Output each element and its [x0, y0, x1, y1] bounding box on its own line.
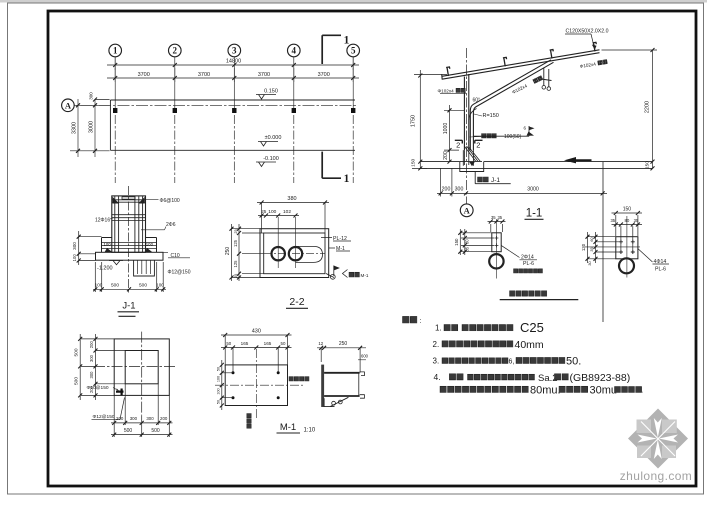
svg-text:50: 50	[226, 341, 231, 346]
logo white pinwheel petals	[654, 418, 662, 438]
svg-text:100: 100	[72, 254, 77, 262]
fplan left dims	[80, 334, 125, 400]
channel top flange	[324, 372, 360, 374]
grid circle A	[62, 99, 75, 112]
svg-text:35: 35	[610, 218, 615, 223]
svg-text:12Φ16: 12Φ16	[95, 218, 110, 224]
section: purlin C-marks on beam	[446, 67, 451, 76]
svg-text:200: 200	[442, 187, 451, 193]
svg-text:PL-6: PL-6	[655, 267, 666, 273]
J-1 pit below slab	[134, 260, 155, 276]
svg-text:A: A	[65, 101, 72, 111]
svg-text:C25: C25	[520, 320, 544, 335]
right purlin leader + labels	[638, 249, 669, 264]
section cut marks 2-2 on column	[455, 140, 483, 143]
left arrow on ground	[564, 157, 592, 163]
svg-text:35: 35	[634, 218, 639, 223]
svg-text:60°: 60°	[473, 98, 481, 104]
bay dim line 3700s	[107, 77, 359, 79]
svg-text:(GB8923-88): (GB8923-88)	[570, 372, 631, 384]
svg-text:500: 500	[124, 428, 133, 434]
channel top-right lip hook	[360, 372, 365, 376]
svg-text:200: 200	[443, 151, 449, 160]
svg-text:3.: 3.	[433, 357, 440, 366]
label pad plate (CJK)	[482, 134, 486, 138]
logo squares	[637, 420, 652, 434]
section: column pipe	[464, 74, 468, 150]
svg-text:0.150: 0.150	[264, 89, 278, 95]
J-1 top plate lines	[112, 200, 146, 202]
svg-text:1750: 1750	[411, 115, 417, 127]
J-1 base slab	[96, 252, 164, 260]
bottom dim line 200/300/3000	[437, 168, 607, 196]
svg-text:J-1: J-1	[122, 301, 135, 312]
left purlin bolt crosses	[494, 236, 498, 247]
M-1 bottom rotated CJK label	[247, 414, 251, 418]
svg-text:4: 4	[292, 46, 297, 56]
svg-text:200: 200	[160, 416, 168, 421]
svg-text:600: 600	[361, 354, 369, 359]
ground line top	[420, 161, 653, 163]
svg-text:165: 165	[264, 341, 272, 346]
svg-text:100: 100	[216, 388, 220, 394]
svg-text:25: 25	[234, 274, 238, 278]
svg-text:2: 2	[456, 141, 460, 150]
J-1 center dash line	[128, 186, 130, 293]
svg-text:100: 100	[216, 376, 220, 382]
svg-text:3700: 3700	[318, 72, 330, 78]
svg-text:3000: 3000	[89, 121, 95, 133]
svg-text:200: 200	[89, 385, 94, 393]
svg-text:300: 300	[146, 416, 154, 421]
left purlin leader + labels	[501, 245, 537, 259]
column dots in plan	[113, 108, 117, 113]
svg-text:12: 12	[318, 341, 323, 346]
svg-text:300: 300	[89, 354, 94, 362]
svg-text:150: 150	[623, 206, 632, 212]
svg-text:300: 300	[130, 416, 138, 421]
svg-text:50: 50	[216, 400, 220, 404]
svg-text:150: 150	[645, 161, 651, 169]
left purlin centerline	[495, 219, 497, 279]
svg-text:125: 125	[233, 239, 238, 247]
M-1 top dim 50/165/165/50	[221, 348, 292, 373]
svg-text:4.: 4.	[434, 372, 441, 382]
svg-text:250: 250	[339, 341, 348, 347]
svg-text:Φ6@100: Φ6@100	[160, 198, 180, 204]
svg-text:3700: 3700	[258, 72, 270, 78]
svg-text:40mm: 40mm	[515, 339, 544, 351]
svg-text:5: 5	[351, 46, 356, 56]
svg-text:PL-6: PL-6	[523, 261, 534, 267]
svg-text:500: 500	[111, 283, 119, 289]
svg-text:80mu.: 80mu.	[530, 385, 561, 397]
foundation inner square	[125, 351, 158, 384]
top gray strip	[0, 0, 707, 3]
svg-text:100: 100	[268, 209, 276, 215]
plan slab outline	[110, 100, 355, 150]
channel bottom-right lip hook	[360, 395, 365, 399]
svg-text:35: 35	[465, 246, 470, 251]
2-2 weld mark bottom right	[326, 274, 334, 278]
label phi102x4 right	[579, 60, 607, 69]
2-2 pipe circles	[272, 247, 285, 260]
svg-text:430: 430	[252, 328, 261, 334]
svg-text:150: 150	[411, 158, 417, 166]
svg-text:100: 100	[156, 283, 164, 288]
svg-text:35: 35	[497, 215, 502, 220]
svg-text:3: 3	[232, 46, 237, 56]
grid A circle below section	[460, 204, 473, 217]
svg-text:380: 380	[287, 196, 296, 202]
foundation outer square	[114, 339, 169, 396]
svg-text:100: 100	[95, 283, 103, 288]
corner rebar mark	[116, 389, 124, 396]
svg-text:-0.100: -0.100	[263, 156, 279, 162]
2-2 centerlines	[264, 253, 325, 255]
svg-text:zhulong.com: zhulong.com	[620, 469, 692, 483]
section mark 1 bottom	[322, 152, 341, 179]
svg-text:1: 1	[344, 173, 350, 185]
left purlin left dims	[460, 229, 494, 255]
column base plate + stiffener diagonals	[460, 146, 482, 166]
pit under column	[460, 162, 484, 172]
svg-text:1: 1	[113, 46, 118, 56]
section: grid A axis dash-dot	[466, 48, 468, 204]
J-1 left dims 300/100	[79, 231, 102, 265]
M-1 plate	[225, 365, 287, 406]
svg-text:100: 100	[146, 242, 154, 247]
label phi102x4 brace	[511, 76, 543, 95]
svg-text::: :	[420, 318, 422, 325]
svg-text:C120X50X2.0X2.0: C120X50X2.0X2.0	[566, 29, 609, 35]
J-1 column rebar verticals	[115, 197, 143, 253]
2-2 top dim 380	[257, 203, 329, 234]
box label: see J-1	[475, 172, 511, 184]
svg-text:3700: 3700	[198, 72, 210, 78]
svg-text:1000: 1000	[443, 123, 449, 135]
fplan bottom dims	[111, 384, 173, 437]
svg-text:2.: 2.	[433, 340, 440, 349]
svg-text:50: 50	[281, 341, 286, 346]
svg-text:R=150: R=150	[483, 113, 499, 119]
svg-text:80: 80	[624, 218, 629, 223]
logo diamond	[628, 409, 688, 469]
svg-text:35: 35	[491, 215, 496, 220]
grid line A horizontal	[62, 104, 358, 106]
svg-text:130: 130	[581, 243, 586, 251]
2-2 left dims	[232, 224, 265, 281]
total dim line 14800	[107, 57, 359, 70]
weld flag symbol	[473, 126, 529, 136]
dim 1750 left	[412, 70, 447, 168]
svg-text:Φ12@150: Φ12@150	[168, 270, 191, 276]
svg-text:150: 150	[454, 238, 459, 246]
svg-text:M-1: M-1	[361, 273, 369, 278]
svg-text:25: 25	[261, 209, 267, 214]
svg-text:100(50): 100(50)	[504, 134, 522, 140]
foundation centerlines	[141, 332, 143, 416]
long extension line right of 3000	[602, 162, 604, 322]
svg-text:165: 165	[241, 341, 249, 346]
M-1 left dims	[222, 360, 233, 410]
grid circles 1-5	[109, 44, 122, 57]
svg-text:2200: 2200	[645, 101, 651, 113]
svg-text:1:10: 1:10	[304, 428, 316, 434]
svg-text:3700: 3700	[138, 72, 150, 78]
svg-text:M-1: M-1	[280, 422, 296, 433]
left purlin pipe circle	[489, 254, 503, 268]
svg-text:50: 50	[216, 367, 220, 371]
svg-text:30mu: 30mu	[590, 385, 618, 397]
right purlin pipe circle	[619, 258, 634, 273]
right purlin top dim 150	[612, 213, 643, 236]
section: sloped beam	[442, 50, 600, 80]
svg-text:200: 200	[116, 416, 124, 421]
svg-text:2Φ6: 2Φ6	[166, 222, 176, 228]
svg-text:±0.000: ±0.000	[265, 135, 282, 141]
plan grid lines 1-5	[114, 57, 116, 100]
2-2 outer rect	[260, 229, 329, 278]
M-1 centerlines	[215, 384, 305, 386]
right purlin left dims	[588, 232, 620, 263]
svg-text:500: 500	[74, 377, 80, 385]
svg-text:200: 200	[89, 341, 94, 349]
svg-text:35: 35	[589, 247, 594, 251]
2-2 inner rect	[264, 233, 325, 274]
M-1 right CJK label	[289, 377, 293, 381]
svg-text:2-2: 2-2	[289, 296, 304, 308]
fillet arc R=150	[469, 109, 477, 121]
left purlin top dim 35/35	[488, 222, 506, 233]
svg-text:50.: 50.	[566, 356, 581, 368]
right purlin centerlines	[626, 216, 628, 278]
J-1 rebar top hooks	[113, 197, 145, 204]
svg-text:1.: 1.	[435, 324, 442, 333]
svg-text:500: 500	[151, 428, 160, 434]
J-1 column outline	[112, 196, 146, 252]
svg-text:2Φ14: 2Φ14	[521, 254, 534, 260]
svg-text:1: 1	[344, 35, 350, 47]
svg-text:300: 300	[455, 187, 464, 193]
left dim lines 3300/3000	[70, 99, 110, 157]
channel right face line	[358, 373, 360, 395]
channel stiffener triangle	[324, 397, 348, 406]
note 4 line 2	[440, 386, 446, 392]
J-1 pad	[102, 238, 157, 253]
2-2 slot plate	[296, 246, 323, 262]
svg-text:500: 500	[74, 348, 80, 356]
M-1 top dim 430	[221, 335, 292, 366]
2-2 top dim 25/100/102	[258, 215, 299, 217]
svg-text:80: 80	[465, 239, 470, 244]
svg-text:4Φ14: 4Φ14	[654, 259, 667, 265]
notes: fuzhu label	[403, 316, 410, 323]
channel top dims 12/250	[317, 348, 366, 373]
dim 1000/200	[444, 105, 464, 162]
dim 2200 right	[602, 50, 658, 168]
svg-text:1-1: 1-1	[526, 208, 543, 220]
svg-text:25: 25	[234, 229, 238, 233]
channel web plate (vertical dark bar)	[321, 365, 324, 407]
svg-text:14800: 14800	[226, 59, 241, 65]
svg-text:2: 2	[476, 141, 480, 150]
M-1 bolt dots	[232, 371, 235, 374]
svg-text:2: 2	[173, 46, 178, 56]
channel bottom flange	[324, 395, 360, 397]
logo white diagonals	[641, 422, 675, 457]
J-1 stirrups	[102, 215, 157, 249]
svg-text:Φ102x4: Φ102x4	[438, 89, 455, 94]
svg-text:3300: 3300	[72, 122, 78, 134]
left purlin plate	[492, 233, 501, 252]
svg-text:3000: 3000	[527, 187, 539, 193]
section: diagonal brace (curves to vertical pipe at bottom)	[470, 60, 553, 150]
svg-text:102: 102	[283, 209, 291, 215]
right purlin bolt crosses	[619, 240, 623, 244]
svg-text:100: 100	[104, 242, 112, 247]
svg-text:Φ12@150: Φ12@150	[93, 414, 115, 420]
title CJK (liaotiao latiao xiangtu)	[510, 291, 515, 296]
svg-text:J-1: J-1	[491, 177, 500, 184]
right purlin dim 35/80/35	[612, 225, 643, 254]
svg-text:300: 300	[89, 92, 94, 100]
svg-text:125: 125	[233, 260, 238, 268]
svg-text:-1.200: -1.200	[97, 266, 113, 272]
section mark 1 top	[322, 35, 341, 64]
svg-text:300: 300	[72, 242, 77, 250]
svg-text:500: 500	[139, 283, 147, 289]
svg-text:250: 250	[225, 247, 231, 256]
svg-text:A: A	[464, 206, 471, 216]
section: tie rod hangers	[541, 68, 552, 87]
right purlin plate	[616, 237, 638, 259]
svg-text:6,: 6,	[509, 359, 515, 366]
svg-text:300: 300	[89, 371, 94, 379]
J-1 bottom dims	[93, 262, 166, 292]
ground line bottom	[420, 167, 653, 169]
